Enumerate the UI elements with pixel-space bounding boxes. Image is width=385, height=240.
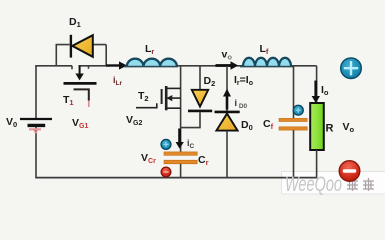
svg-text:Ir=Io: Ir=Io bbox=[234, 74, 253, 87]
capacitor Cf bbox=[279, 66, 307, 178]
svg-text:iLr: iLr bbox=[113, 75, 122, 87]
svg-text:V0: V0 bbox=[6, 116, 17, 129]
wire under Lr bbox=[124, 66, 178, 68]
svg-text:vo: vo bbox=[222, 49, 233, 62]
wire bottom bus bbox=[35, 177, 317, 179]
svg-text:Lf: Lf bbox=[260, 43, 269, 56]
transistor T1 bbox=[64, 66, 97, 108]
wire under Lf bbox=[240, 66, 293, 68]
watermark box bbox=[282, 172, 385, 195]
wire left rail bottom bbox=[35, 127, 37, 178]
wire R bottom bbox=[316, 150, 318, 178]
svg-text:VCr: VCr bbox=[141, 152, 156, 165]
inductor Lr bbox=[127, 59, 177, 67]
svg-text:VG2: VG2 bbox=[126, 114, 142, 127]
transistor T2 body arrow bbox=[166, 95, 172, 101]
diode D0 with iD0 arrow bbox=[215, 66, 240, 178]
svg-text:Cr: Cr bbox=[198, 154, 209, 167]
diode D2 bbox=[181, 66, 213, 128]
inductor Lf bbox=[243, 58, 291, 67]
svg-text:T2: T2 bbox=[138, 90, 149, 103]
svg-text:D0: D0 bbox=[241, 119, 253, 132]
node D1 loop bbox=[56, 45, 106, 66]
diode D1 bbox=[71, 35, 93, 58]
svg-text:T1: T1 bbox=[63, 94, 74, 107]
svg-text:Io: Io bbox=[321, 84, 329, 97]
svg-text:Lr: Lr bbox=[145, 43, 154, 56]
svg-text:i D0: i D0 bbox=[235, 98, 248, 110]
wire vo arrow bbox=[216, 61, 239, 70]
wire arrow into Lr bbox=[106, 61, 127, 69]
wire top bus left bbox=[35, 66, 72, 69]
svg-text:WeeQoo: WeeQoo bbox=[285, 173, 342, 196]
node plus terminal (big) bbox=[341, 58, 362, 79]
wire Cr drop with iC arrow bbox=[176, 128, 184, 152]
battery V0 bbox=[20, 119, 52, 134]
node minus marker Cr bbox=[161, 167, 171, 177]
svg-text:R: R bbox=[326, 123, 334, 135]
svg-text:D1: D1 bbox=[69, 16, 81, 29]
svg-text:iC: iC bbox=[187, 138, 195, 150]
svg-text:D2: D2 bbox=[204, 75, 216, 88]
wire top bus mid bbox=[79, 66, 111, 69]
node plus marker Cf bbox=[293, 105, 303, 115]
svg-text:Cf: Cf bbox=[263, 118, 274, 131]
svg-text:VG1: VG1 bbox=[72, 117, 88, 130]
resistor R bbox=[310, 103, 324, 150]
node minus terminal (big) bbox=[339, 161, 360, 182]
transistor T2 bbox=[136, 66, 181, 128]
wire Io arrow bbox=[312, 81, 320, 104]
wire top bus right bbox=[177, 66, 317, 103]
node plus marker Cr bbox=[161, 139, 171, 149]
svg-text:Vo: Vo bbox=[343, 121, 355, 134]
capacitor Cr bbox=[164, 152, 197, 178]
wire left rail top bbox=[35, 66, 37, 118]
